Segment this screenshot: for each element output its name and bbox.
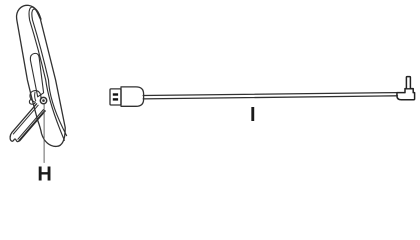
USB plug body <box>121 87 144 106</box>
barrel top joint line <box>405 88 413 90</box>
kickstand leg foot notch <box>10 137 19 142</box>
front face edge line 1 <box>29 7 64 140</box>
charger body outer outline <box>17 5 66 146</box>
knuckle lower lobe <box>29 100 34 105</box>
barrel connector block <box>397 77 415 100</box>
knuckle bulge <box>33 91 41 99</box>
hinge knuckle <box>30 91 35 102</box>
USB plug shield <box>110 89 121 105</box>
hinge pin circle <box>40 97 46 103</box>
kickstand leg bottom shade <box>20 111 45 141</box>
leader line H <box>43 104 45 162</box>
knuckle inner line <box>35 92 36 101</box>
svg-text:H: H <box>37 164 51 186</box>
cable lower line <box>143 96 397 99</box>
cable upper line <box>143 93 397 96</box>
front face edge line 2 <box>32 9 67 136</box>
kickstand leg bottom edge <box>18 110 44 140</box>
svg-text:I: I <box>250 104 256 126</box>
kickstand leg inner edge line <box>13 105 38 134</box>
kickstand leg top edge <box>10 104 36 137</box>
kickstand recess <box>30 53 43 96</box>
USB contact 1 <box>113 93 118 95</box>
USB contact 2 <box>113 98 118 100</box>
